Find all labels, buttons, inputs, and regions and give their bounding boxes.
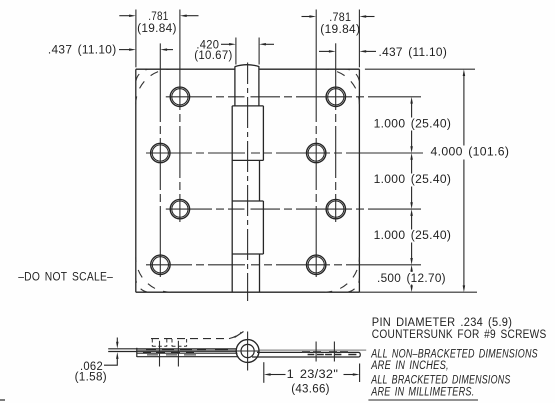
dimension chain 1.000 row3-row4: arrows and stems bbox=[410, 209, 413, 216]
screw hole H7 (countersunk) bbox=[326, 199, 345, 218]
svg-text:.500 (12.70): .500 (12.70) bbox=[377, 273, 446, 285]
svg-text:4.000 (101.6): 4.000 (101.6) bbox=[431, 146, 510, 158]
side view: right leaf outline with rounded tip bbox=[252, 352, 360, 357]
side view: countersink marks, left overlap bbox=[143, 350, 228, 355]
optional radius-corner arcs, top-right bbox=[345, 69, 359, 83]
barrel top arc bbox=[235, 65, 259, 67]
svg-text:(10.67): (10.67) bbox=[194, 50, 232, 62]
svg-text:COUNTERSUNK FOR #9 SCREWS: COUNTERSUNK FOR #9 SCREWS bbox=[372, 329, 547, 341]
svg-text:(1.58): (1.58) bbox=[75, 372, 107, 384]
centerline, screw row 3 (y=209) bbox=[166, 208, 421, 210]
dimension chain 1.000 row2-row3: arrows and stems bbox=[410, 153, 413, 160]
screw hole H5 (countersunk) bbox=[326, 87, 345, 106]
knuckle joint 4 bbox=[232, 253, 263, 255]
dimension .420: arrows bbox=[221, 43, 231, 45]
dimension .500 row4-bottom: arrows and stems bbox=[410, 265, 413, 272]
svg-text:ALL NON–BRACKETED DIMENSIONS: ALL NON–BRACKETED DIMENSIONS bbox=[370, 348, 537, 360]
optional radius-corner arcs, bottom-right bbox=[345, 278, 359, 292]
screw hole H3 (countersunk) bbox=[170, 199, 189, 218]
underline below ARE IN MILLIMETERS bbox=[368, 399, 478, 401]
svg-text:1.000 (25.40): 1.000 (25.40) bbox=[374, 174, 452, 186]
svg-text:.437 (11.10): .437 (11.10) bbox=[48, 45, 117, 57]
knuckle K5 right edge bbox=[259, 254, 261, 292]
screw hole H6 (countersunk) bbox=[307, 143, 326, 162]
dimension .781 right: outside arrows bbox=[302, 16, 311, 18]
centerline, screw column x=316.2 bbox=[315, 69, 317, 277]
centerline, screw column x=335.7 bbox=[335, 69, 337, 222]
svg-text:ARE IN MILLIMETERS.: ARE IN MILLIMETERS. bbox=[370, 387, 474, 399]
optional radius-corner arcs, bottom-left bbox=[136, 278, 150, 292]
side view: swage step at leaf tip bbox=[136, 348, 138, 357]
dimension chain 1.000 row1-row2: arrows and stems bbox=[410, 97, 413, 104]
side view: phantom dashed line of swung leaf bbox=[151, 332, 241, 339]
svg-text:PIN DIAMETER .234 (5.9): PIN DIAMETER .234 (5.9) bbox=[372, 317, 512, 329]
knuckle joint 3 bbox=[232, 200, 263, 202]
barrel left edge (K2-K5) bbox=[231, 106, 233, 292]
svg-text:1.000 (25.40): 1.000 (25.40) bbox=[374, 118, 452, 130]
side view: right leaf top surface (gray) bbox=[259, 349, 366, 351]
screw hole H1 (countersunk) bbox=[170, 87, 189, 106]
dimension 4.000 overall: arrows and stems bbox=[463, 69, 466, 76]
extension line, barrel left for .420 dim bbox=[235, 38, 237, 65]
extension line above plate, column x=160.3 bbox=[159, 43, 161, 69]
optional radius-corner arcs, top-left (1/4 in and 5/8 in, dashed) bbox=[136, 69, 150, 83]
screw hole H2 (countersunk) bbox=[151, 143, 170, 162]
side view: diagonal tick upper-left of barrel bbox=[235, 332, 244, 338]
extension line above plate, column x=179.9 bbox=[179, 10, 181, 70]
svg-text:.781: .781 bbox=[329, 12, 351, 24]
dimension .062 leaf thickness: arrows and leader bbox=[104, 338, 119, 366]
svg-text:ARE IN INCHES,: ARE IN INCHES, bbox=[370, 360, 449, 372]
pin centerline (dashed) bbox=[247, 63, 249, 302]
centerline, screw column x=179.9 bbox=[179, 69, 181, 222]
drawing border tick, bottom-left bbox=[0, 399, 5, 401]
knuckle joint 1 bbox=[232, 105, 263, 107]
screw hole H8 (countersunk) bbox=[307, 255, 326, 274]
dimension .437 left: leader and arrows bbox=[119, 49, 131, 51]
knuckle joint 2 bbox=[232, 159, 263, 161]
knuckle K4 right edge bbox=[262, 201, 264, 254]
side view: upper leaf top surface line bbox=[108, 348, 236, 350]
extension line, plate bottom edge extended right bbox=[359, 291, 477, 293]
hinge plate outline bbox=[136, 69, 360, 292]
svg-text:.437 (11.10): .437 (11.10) bbox=[379, 47, 448, 59]
centerline, screw row 1 (y=96.8) bbox=[166, 96, 421, 98]
svg-text:(19.84): (19.84) bbox=[320, 24, 360, 36]
svg-text:1 23/32": 1 23/32" bbox=[287, 367, 339, 381]
extension line above plate, column x=316.2 bbox=[315, 10, 317, 70]
knuckle K3 right edge bbox=[259, 160, 261, 201]
extension line, plate right edge extended up bbox=[358, 10, 360, 68]
extension line, plate left edge extended up bbox=[135, 10, 137, 68]
dimension 1 23/32: extension lines and arrows bbox=[264, 362, 360, 383]
svg-text:ALL BRACKETED DIMENSIONS: ALL BRACKETED DIMENSIONS bbox=[370, 374, 510, 386]
svg-text:(19.84): (19.84) bbox=[137, 23, 177, 35]
centerline, screw column x=160.3 bbox=[159, 69, 161, 277]
centerline, screw row 2 (y=153) bbox=[146, 152, 423, 154]
svg-text:(43.66): (43.66) bbox=[291, 381, 330, 395]
knuckle K1 side edges bbox=[235, 66, 259, 106]
dimension .781 left: outside arrows bbox=[119, 15, 130, 17]
svg-text:1.000 (25.40): 1.000 (25.40) bbox=[374, 230, 452, 242]
side view: overlapped leaves layer lines bbox=[137, 349, 236, 351]
knuckle K2 right edge bbox=[262, 106, 264, 160]
top texts bbox=[18, 11, 509, 285]
side view: barrel and pin circles bbox=[236, 340, 259, 363]
centerline, screw row 4 (y=264.8) bbox=[146, 264, 421, 266]
side view: countersink marks, right leaf bbox=[302, 352, 356, 355]
extension line, barrel right for .420 dim bbox=[258, 38, 260, 65]
svg-text:.781: .781 bbox=[148, 11, 168, 23]
svg-text:–DO NOT SCALE–: –DO NOT SCALE– bbox=[18, 272, 113, 284]
dimension .437 right: arrows bbox=[319, 50, 331, 52]
side view: barrel crosshair centerlines bbox=[247, 332, 249, 371]
extension line above plate, column x=335.7 bbox=[335, 43, 337, 69]
extension line, plate top edge extended right bbox=[365, 68, 475, 70]
side view: screw hole centerlines bbox=[160, 341, 335, 367]
screw hole H4 (countersunk) bbox=[151, 255, 170, 274]
